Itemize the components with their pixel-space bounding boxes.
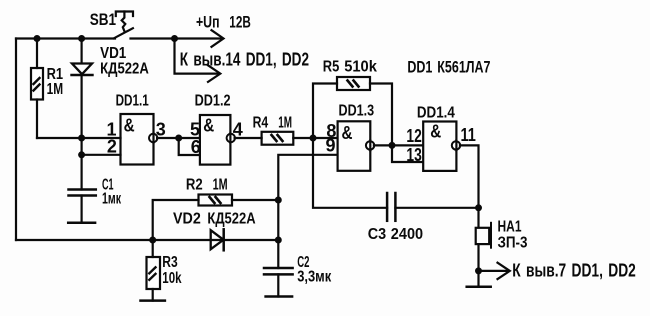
svg-text:R3: R3 <box>162 254 177 271</box>
wire pin9 feedback <box>278 155 337 268</box>
svg-text:11: 11 <box>461 125 476 145</box>
svg-text:+Uп: +Uп <box>196 13 220 32</box>
junction: C3 right node <box>475 204 482 211</box>
wire pin1 <box>82 137 121 139</box>
capacitor C3 <box>313 138 479 221</box>
power arrow K vyv.14 <box>175 39 221 82</box>
svg-text:2: 2 <box>107 136 117 156</box>
svg-text:510k: 510k <box>344 58 377 75</box>
svg-text:DD1.3: DD1.3 <box>339 103 375 120</box>
svg-text:1M: 1M <box>213 177 228 194</box>
ground under R3 <box>141 299 165 302</box>
wire pin8 <box>313 137 338 139</box>
wire left rail <box>15 39 17 241</box>
junction: pin1 node <box>78 135 85 142</box>
svg-text:2400: 2400 <box>391 226 423 243</box>
svg-text:DD1.4: DD1.4 <box>417 104 455 121</box>
resistor R4 <box>262 132 313 145</box>
junction: top rail VD1 <box>78 35 85 42</box>
svg-text:DD1.1: DD1.1 <box>116 92 149 109</box>
svg-text:R4: R4 <box>253 114 269 131</box>
svg-text:10k: 10k <box>162 270 181 287</box>
svg-text:&: & <box>430 121 441 141</box>
wire top rail <box>16 37 115 39</box>
svg-text:3,3мк: 3,3мк <box>297 269 332 286</box>
wire pin6 drop <box>179 138 200 155</box>
junction: top rail R1 <box>34 35 41 42</box>
svg-text:КД522А: КД522А <box>100 60 149 77</box>
wire pin4 to R4 <box>235 137 262 139</box>
svg-text:1M: 1M <box>278 114 292 131</box>
svg-text:12В: 12В <box>229 13 251 32</box>
diode VD1 <box>72 39 93 155</box>
gate DD1.3 <box>338 121 371 171</box>
svg-text:&: & <box>124 116 135 136</box>
junction: pin2 node <box>78 151 85 158</box>
junction: pin8 node <box>310 135 317 142</box>
svg-text:К выв.7 DD1, DD2: К выв.7 DD1, DD2 <box>512 260 636 280</box>
svg-text:12: 12 <box>406 126 421 146</box>
svg-text:4: 4 <box>233 120 243 140</box>
svg-text:3: 3 <box>156 120 166 140</box>
diode VD2 <box>211 229 224 250</box>
svg-text:DD1.2: DD1.2 <box>195 93 231 110</box>
junction: R3 top node <box>149 237 156 244</box>
wire pin11 output <box>460 145 479 227</box>
junction: pin3-pin5 node <box>175 135 182 142</box>
gate DD1.2 <box>200 115 231 165</box>
ground under HA1 node <box>467 271 491 287</box>
gate DD1.1 output circle <box>149 134 157 142</box>
switch SB1 <box>114 12 175 39</box>
svg-text:R2: R2 <box>186 177 203 194</box>
ground under C2 <box>266 295 293 298</box>
svg-text:&: & <box>203 116 214 136</box>
svg-text:R5: R5 <box>323 58 340 75</box>
wire pin2 <box>82 154 121 156</box>
svg-text:DD1 К561ЛА7: DD1 К561ЛА7 <box>407 58 490 77</box>
svg-text:6: 6 <box>191 137 201 157</box>
power arrow +Up 12V <box>175 30 224 47</box>
resistor R2 <box>153 195 279 241</box>
resistor R3 <box>147 240 161 301</box>
svg-text:ЗП-3: ЗП-3 <box>498 234 528 251</box>
svg-text:13: 13 <box>406 145 421 165</box>
svg-text:1мк: 1мк <box>102 191 122 208</box>
junction: top rail power <box>171 35 178 42</box>
wire pin10 to junction <box>374 144 423 146</box>
resistor R5 <box>313 77 392 145</box>
wire pin3 to junction <box>157 137 200 139</box>
wire bottom rail to VD2 line <box>16 239 278 241</box>
svg-text:SB1: SB1 <box>90 10 116 29</box>
resistor R1 <box>31 39 82 139</box>
gate DD1.4 output circle <box>452 141 460 149</box>
gate DD1.2 output circle <box>227 134 235 142</box>
capacitor C2 <box>264 268 293 297</box>
wire pin13 drop <box>392 145 423 162</box>
capacitor C1 <box>69 155 96 223</box>
svg-text:КД522А: КД522А <box>207 211 256 228</box>
svg-text:HA1: HA1 <box>498 219 522 236</box>
svg-text:9: 9 <box>325 135 335 155</box>
gate DD1.3 output circle <box>366 141 374 149</box>
svg-text:1M: 1M <box>47 81 64 98</box>
ground under C1 <box>68 222 95 225</box>
svg-text:К выв.14 DD1, DD2: К выв.14 DD1, DD2 <box>180 49 309 69</box>
buzzer HA1 <box>476 223 491 271</box>
svg-text:C3: C3 <box>368 226 386 243</box>
gate DD1.4 <box>423 122 456 171</box>
node arrow K vyv.7 <box>479 263 510 279</box>
junction: R2 right node <box>275 197 282 204</box>
junction: output node bottom <box>475 267 482 274</box>
NAND gate DD1.1 <box>121 114 154 165</box>
junction: VD2 cathode node <box>275 237 282 244</box>
svg-text:&: & <box>342 123 353 143</box>
junction: pin10 node <box>389 142 396 149</box>
svg-text:VD2: VD2 <box>173 211 201 228</box>
